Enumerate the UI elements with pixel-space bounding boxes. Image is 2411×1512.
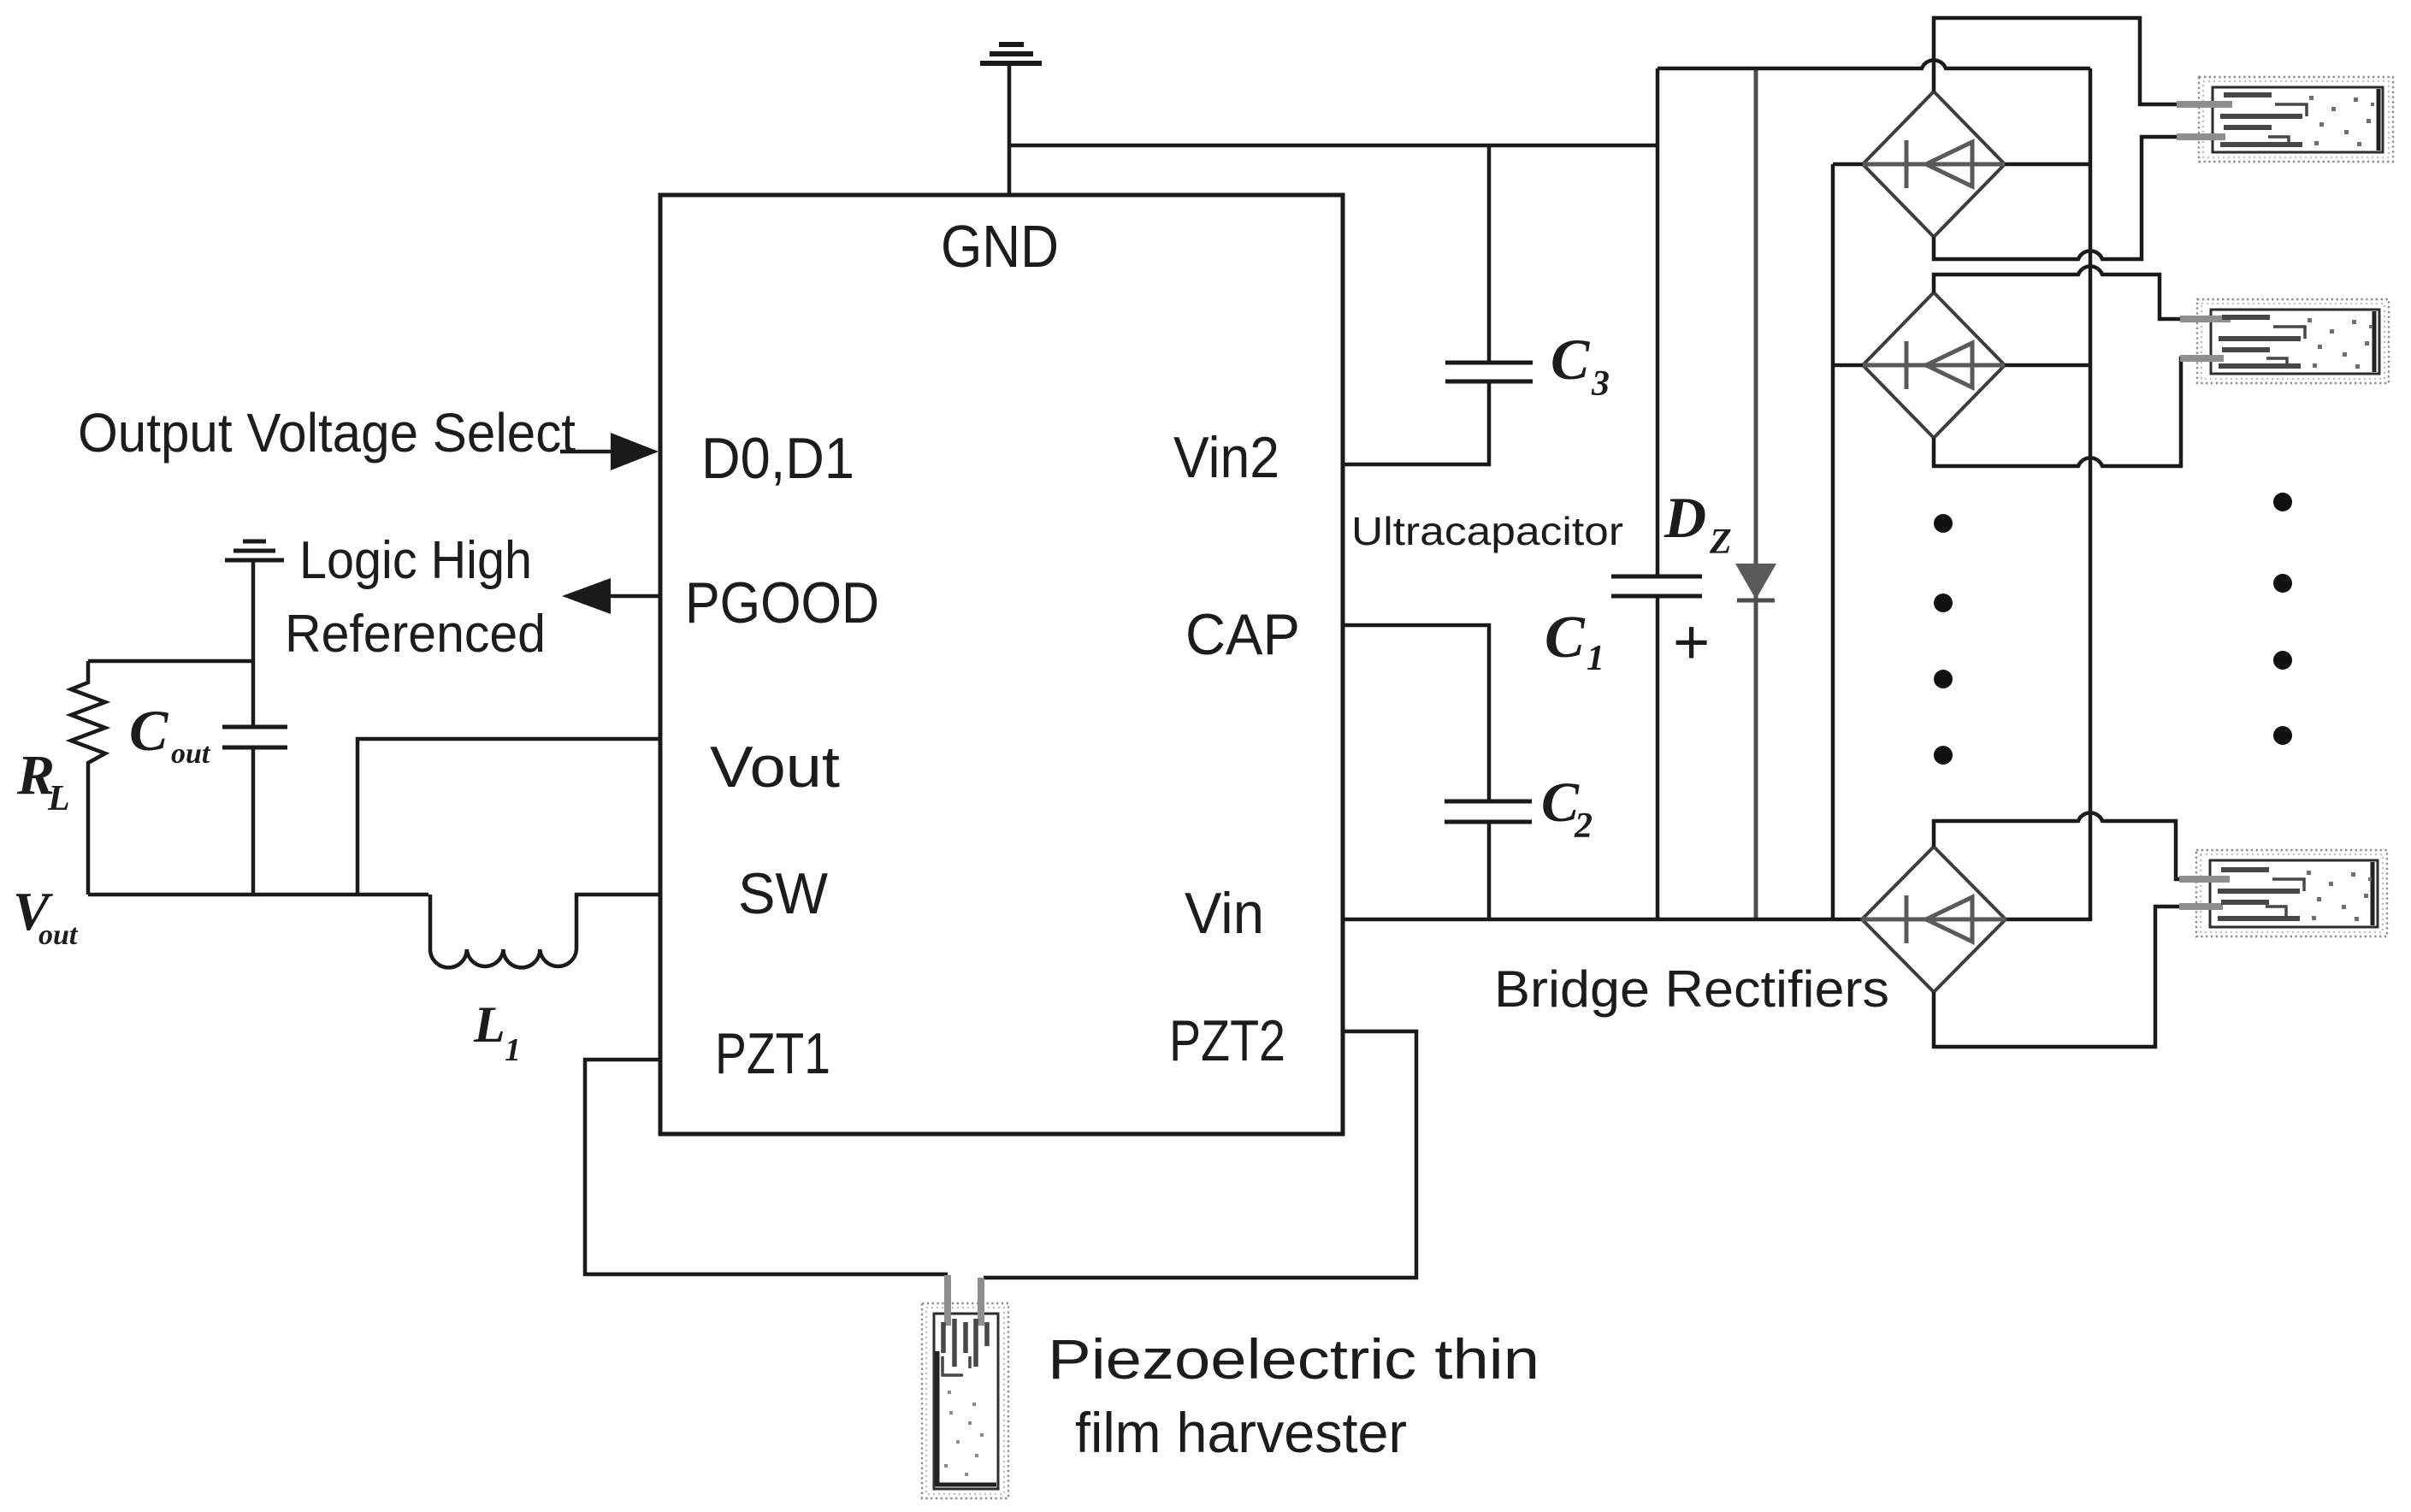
svg-text:Z: Z — [1709, 523, 1732, 562]
arrow out of PGOOD — [562, 578, 611, 614]
svg-text:film harvester: film harvester — [1075, 1401, 1407, 1464]
svg-text:C: C — [1551, 327, 1590, 392]
wire CAP pin — [1343, 625, 1489, 801]
piezo film harvester P2 — [2180, 299, 2389, 383]
wire C2 lower — [1487, 822, 1492, 919]
svg-text:Vin: Vin — [1185, 881, 1264, 946]
wire right DC bus — [2006, 68, 2090, 919]
svg-text:C: C — [129, 698, 168, 763]
wire BR3 bottom to piezo3 bottom prong — [1934, 907, 2199, 1047]
wire Vout pin — [358, 739, 659, 895]
wire V_out node / SW rail — [88, 893, 428, 897]
svg-text:out: out — [171, 738, 211, 770]
svg-text:Logic High: Logic High — [299, 531, 532, 590]
arrow into D0,D1 — [611, 433, 659, 470]
capacitor C_out — [222, 727, 287, 747]
svg-text:1: 1 — [1587, 639, 1604, 678]
wire BR3 top to piezo3 top prong (hop over right bus) — [1934, 812, 2199, 879]
wire C_out lower stem — [251, 747, 256, 895]
svg-text:Bridge Rectifiers: Bridge Rectifiers — [1494, 960, 1889, 1018]
bridge rectifier BR3 — [1862, 847, 2006, 992]
wire BR2 top to piezo2 top prong (hop over right bus) — [1934, 266, 2183, 319]
svg-text:Referenced: Referenced — [285, 605, 546, 664]
capacitor C3 — [1445, 363, 1533, 381]
svg-text:Output Voltage Select: Output Voltage Select — [78, 402, 576, 464]
wire PZT1 to harvester — [585, 1060, 948, 1274]
svg-text:PZT1: PZT1 — [715, 1021, 830, 1086]
wire PGOOD lead — [604, 594, 659, 599]
dots column left — [1934, 514, 1953, 765]
resistor R_L — [71, 661, 105, 895]
wire BR1 left stub — [1833, 162, 1863, 167]
svg-text:D0,D1: D0,D1 — [701, 426, 854, 491]
svg-text:CAP: CAP — [1185, 602, 1300, 667]
svg-text:2: 2 — [1574, 806, 1593, 846]
wire left AC bus — [1831, 164, 1835, 919]
wire top rail from GND to C1 bus — [1009, 144, 1658, 148]
wire BR1 top to piezo1 top prong — [1934, 18, 2179, 104]
capacitor C2 — [1445, 801, 1532, 822]
svg-text:L: L — [47, 779, 70, 818]
wire C3 branch upper — [1487, 145, 1492, 363]
svg-text:3: 3 — [1591, 364, 1610, 404]
svg-text:Vin2: Vin2 — [1173, 425, 1279, 490]
IC U1 box — [660, 195, 1343, 1134]
svg-text:Ultracapacitor: Ultracapacitor — [1351, 509, 1623, 553]
svg-text:out: out — [38, 919, 79, 951]
svg-text:L: L — [473, 996, 505, 1053]
capacitor C1 ultracapacitor — [1611, 576, 1702, 596]
svg-text:C: C — [1545, 605, 1586, 670]
wire BR2 right stub — [2005, 363, 2090, 368]
bridge rectifier BR2 — [1863, 292, 2005, 438]
wire C1 bus lower — [1656, 596, 1660, 919]
dots column right — [2273, 493, 2292, 745]
wire C1 bus upper — [1656, 68, 1660, 576]
svg-text:Vout: Vout — [710, 735, 840, 800]
inductor L1 — [430, 895, 659, 967]
piezoelectric thin film harvester (bottom) — [922, 1275, 1008, 1498]
wire C_out / gnd stem upper — [251, 562, 256, 727]
ground (logic high reference) — [225, 541, 284, 560]
svg-text:SW: SW — [738, 861, 828, 926]
zener diode DZ — [1735, 68, 1776, 919]
svg-text:PGOOD: PGOOD — [685, 570, 879, 635]
piezo film harvester P1 — [2177, 77, 2393, 162]
wire BR1 right stub — [2005, 162, 2090, 167]
piezo film harvester P3 — [2179, 850, 2387, 936]
wire GND stem — [1008, 65, 1012, 195]
svg-text:Piezoelectric thin: Piezoelectric thin — [1048, 1327, 1539, 1391]
svg-text:PZT2: PZT2 — [1169, 1008, 1285, 1073]
svg-text:GND: GND — [941, 213, 1059, 280]
wire Vin pin rail — [1343, 918, 1862, 922]
wire BR2 bottom to piezo2 bottom prong (hop over right bus) — [1934, 358, 2200, 466]
wire BR2 left stub — [1833, 363, 1863, 368]
wire PZT2 to harvester — [984, 1031, 1416, 1278]
wire top DC rail (C1 top to right bus) with hop — [1658, 60, 2090, 68]
svg-text:+: + — [1673, 606, 1710, 677]
wire BR1 bottom to piezo1 bottom prong (hop over right bus) — [1934, 137, 2179, 259]
wire arrow lead D0,D1 — [560, 450, 618, 454]
ground (top, at GND pin) — [980, 44, 1042, 63]
wire C3 branch lower / Vin2 pin — [1343, 381, 1489, 464]
wire R_L top — [88, 659, 253, 664]
bridge rectifier BR1 — [1863, 92, 2005, 237]
svg-text:1: 1 — [505, 1032, 521, 1068]
svg-text:D: D — [1663, 485, 1706, 550]
